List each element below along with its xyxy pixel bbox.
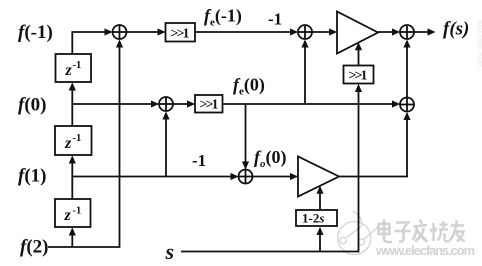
arrow into SH1 — [158, 28, 166, 35]
wire f(0) row to adder S4 — [72, 103, 157, 105]
svg-text:f(s): f(s) — [443, 19, 469, 40]
delay Z3 — [55, 199, 91, 227]
arrow into 1-2s bottom — [316, 227, 323, 235]
wire A2 around to adder S5 — [339, 114, 407, 177]
svg-text:www.elecfans.com: www.elecfans.com — [375, 243, 475, 258]
svg-text:-1: -1 — [73, 206, 82, 217]
arrow into S6 left — [231, 173, 239, 180]
svg-text:-1: -1 — [268, 10, 282, 29]
svg-text:>>1: >>1 — [200, 98, 219, 113]
arrow into S5 bottom — [403, 112, 410, 120]
wire f(1) branch up to adder S4 — [165, 113, 167, 177]
arrow into A1 lower edge — [355, 42, 362, 50]
svg-text:fo(0): fo(0) — [254, 147, 287, 170]
arrow into A2 lower edge — [316, 186, 323, 194]
svg-text:z: z — [64, 135, 72, 152]
svg-text:fe(0): fe(0) — [233, 75, 265, 98]
watermark glyph dian — [379, 220, 393, 243]
shift block SH1 — [166, 23, 196, 42]
wire s input up to shift SH3 — [181, 86, 359, 252]
watermark glyph you — [450, 221, 465, 242]
amplifier A2 — [298, 157, 339, 197]
arrow into delay Z3 bottom — [69, 228, 76, 236]
arrow into S4 bottom — [162, 112, 169, 120]
svg-text:>>1: >>1 — [171, 27, 190, 42]
arrow into S4 left — [151, 100, 159, 107]
arrow into S2 left — [290, 28, 298, 35]
watermark glyph shao — [430, 221, 449, 242]
svg-text:f(2): f(2) — [20, 237, 48, 258]
svg-text:-1: -1 — [73, 133, 82, 144]
wire A1 to adder S3 — [378, 31, 399, 33]
arrow into A1 — [329, 28, 337, 35]
wire f(1) row to adder S6 — [72, 176, 237, 178]
adder S3 — [400, 25, 414, 39]
wire delay chain z3 out through f(1) node to z2 in — [71, 157, 73, 199]
svg-text:1-2s: 1-2s — [302, 211, 324, 226]
wire f_e(0) branch down to adder S6 — [245, 104, 247, 168]
adder S1 — [113, 25, 127, 39]
arrow into S2 bottom — [301, 40, 308, 48]
arrow into S3 left — [392, 28, 400, 35]
delay Z1 — [56, 54, 92, 82]
wire SH3 to amplifier A1 lower input — [358, 44, 360, 66]
adder S5 — [400, 98, 414, 112]
arrow into delay Z2 bottom — [69, 156, 76, 164]
arrow into SH3 bottom — [355, 84, 362, 92]
svg-text:-1: -1 — [192, 151, 206, 170]
svg-text:-1: -1 — [73, 60, 82, 71]
arrow into SH2 — [187, 100, 195, 107]
arrow into delay Z1 bottom — [69, 83, 76, 91]
svg-text:f(-1): f(-1) — [18, 22, 53, 43]
arrow into S3 bottom — [403, 40, 410, 48]
coefficient box 1-2s — [296, 210, 337, 226]
arrow into S6 top — [242, 162, 249, 170]
svg-text:s: s — [165, 239, 175, 264]
wire SH1 to adder S2 (f_e(-1) net) — [195, 31, 297, 33]
wire S2 to amplifier A1 — [312, 31, 336, 33]
svg-text:elecfans.com: elecfans.com — [476, 20, 482, 67]
arrow into A2 — [290, 173, 298, 180]
wire SH2 to adder S5 (f_e(0) net) — [223, 103, 399, 105]
wire S5 up to adder S3 — [406, 42, 408, 98]
wire s branch up to coefficient box 1-2s — [319, 229, 321, 252]
wire f(-1) row from z-delay output to adder S1 — [72, 32, 111, 54]
svg-text:fe(-1): fe(-1) — [204, 6, 242, 29]
wire S1 to shift SH1 — [127, 31, 165, 33]
amplifier A1 — [337, 12, 378, 54]
arrow into S1 bottom — [116, 40, 123, 48]
wire f_e(0) branch up to adder S2 — [304, 41, 306, 104]
adder S4 — [159, 97, 173, 111]
watermark logo elecfans — [338, 211, 378, 255]
svg-text:z: z — [64, 207, 72, 224]
svg-text:z: z — [65, 62, 73, 79]
wire delay chain z2 out through f(0) node to z1 in — [71, 84, 73, 126]
wire 1-2s box to amplifier A2 lower input — [319, 188, 321, 211]
arrow output f(s) — [428, 28, 436, 35]
wire S3 to output f(s) — [414, 31, 433, 33]
arrow into S5 left — [392, 100, 400, 107]
adder S2 — [298, 25, 312, 39]
delay Z2 — [55, 126, 92, 155]
watermark glyph zi — [395, 223, 411, 242]
wire f(2) branch up to adder S1 — [48, 41, 120, 247]
shift block SH2 — [195, 95, 223, 113]
shift block SH3 — [344, 66, 374, 84]
wire S6 to amplifier A2 — [253, 176, 297, 178]
wire f(2) node to z3 in — [71, 229, 73, 247]
adder S6 — [239, 170, 253, 184]
wire S4 to shift SH2 — [173, 103, 194, 105]
svg-text:f(0): f(0) — [18, 95, 46, 116]
svg-text:>>1: >>1 — [349, 69, 368, 84]
arrow into S1 left — [105, 28, 113, 35]
svg-text:f(1): f(1) — [18, 166, 46, 187]
watermark glyph fa — [413, 220, 428, 243]
